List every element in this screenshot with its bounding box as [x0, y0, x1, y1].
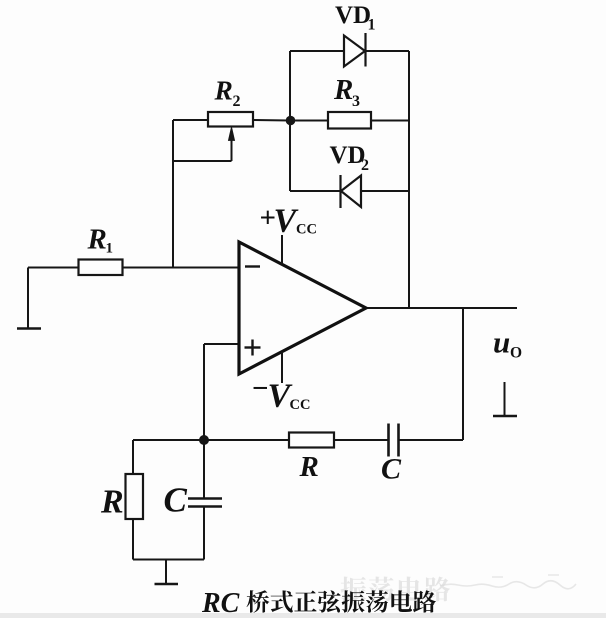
svg-text:3: 3	[352, 93, 360, 110]
svg-text:CC: CC	[296, 222, 317, 238]
resistor R1	[79, 260, 123, 276]
diode VD2	[341, 175, 362, 208]
bottom gray strip	[0, 613, 606, 618]
svg-text:R: R	[87, 224, 107, 256]
svg-text:2: 2	[361, 157, 369, 174]
op-amp +Vcc supply lead	[281, 235, 283, 265]
capacitor C (series, bottom) plates	[389, 424, 399, 457]
svg-text:V: V	[274, 203, 299, 240]
capacitor C (parallel) plates	[188, 499, 222, 507]
svg-text:CC: CC	[290, 397, 311, 413]
wire R3 branch left	[290, 120, 328, 122]
junction node dot (non-inverting RC node)	[199, 435, 209, 445]
op-amp U1 triangle	[239, 242, 366, 374]
wire non-inverting input vertical down to node	[203, 344, 205, 440]
wire VD1 branch right	[366, 50, 410, 52]
wire node to series R	[204, 439, 289, 441]
wire output drop to RC feedback	[462, 308, 464, 440]
wire parallel C lower vertical	[203, 507, 205, 560]
svg-text:R: R	[333, 74, 353, 106]
junction dot at R2/R3 node	[286, 116, 296, 126]
svg-text:1: 1	[106, 241, 114, 257]
wire R2 right lead	[253, 119, 290, 122]
resistor R (series, bottom)	[289, 433, 334, 448]
potentiometer R2 wiper arrow	[228, 127, 234, 161]
wire left branch upper vertical	[132, 440, 134, 474]
svg-text:C: C	[164, 481, 188, 520]
svg-text:u: u	[493, 325, 510, 360]
wire right rail of diode network	[408, 51, 410, 308]
op-amp -Vcc supply lead	[281, 352, 283, 384]
wire inverting input (through R1)	[28, 267, 239, 269]
resistor R3	[328, 112, 371, 129]
watermark text (faint)	[341, 576, 451, 601]
wire R2 wiper horizontal	[173, 160, 232, 162]
wire feedback vertical from R2 down to inverting input	[172, 120, 174, 268]
wire VD1 branch left	[290, 50, 344, 52]
svg-text:−: −	[252, 373, 269, 405]
wire non-inverting input horizontal	[204, 343, 238, 345]
ground at R1 left	[17, 268, 41, 329]
svg-text:1: 1	[368, 17, 376, 34]
wire VD2 branch left	[290, 190, 340, 192]
wire VD2 branch right	[361, 190, 409, 192]
ground at bottom RC branch	[155, 560, 179, 585]
op-amp inverting input minus sign	[245, 265, 260, 267]
wire series C to output drop	[399, 439, 464, 441]
svg-text:R: R	[100, 484, 124, 521]
svg-text:C: C	[381, 453, 402, 486]
wire left rail of diode network	[289, 51, 291, 191]
op-amp non-inverting input plus sign	[245, 340, 261, 356]
svg-text:VD: VD	[335, 2, 371, 29]
wire parallel C upper vertical	[203, 440, 205, 499]
wire series R to series C	[334, 439, 389, 441]
svg-text:R: R	[214, 75, 233, 106]
wire R3 branch right	[371, 120, 409, 122]
resistor R (parallel, left vertical)	[126, 474, 144, 519]
svg-text:2: 2	[233, 93, 241, 110]
svg-text:R: R	[299, 451, 319, 483]
wire node to left parallel branch	[133, 439, 204, 441]
diode VD1	[344, 33, 366, 67]
wire op-amp output	[366, 307, 517, 309]
svg-text:O: O	[510, 345, 522, 362]
wire R2 left lead	[173, 119, 208, 121]
wire bottom connecting R and C branches	[133, 559, 204, 561]
resistor R2 (potentiometer body)	[208, 112, 253, 127]
wire left branch lower vertical	[132, 519, 134, 560]
ground at output uO	[493, 382, 517, 416]
